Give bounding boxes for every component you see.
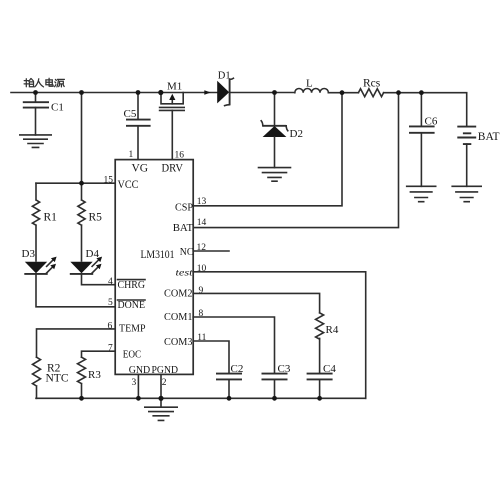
resistor R1 bbox=[32, 183, 57, 261]
wire pin1 VG from C5 bbox=[137, 126, 139, 160]
svg-text:C6: C6 bbox=[425, 116, 438, 128]
svg-text:R4: R4 bbox=[326, 324, 339, 336]
svg-text:6: 6 bbox=[108, 322, 113, 332]
svg-text:5: 5 bbox=[108, 298, 113, 308]
svg-text:VG: VG bbox=[132, 162, 149, 174]
svg-text:R3: R3 bbox=[88, 369, 101, 381]
capacitor C6 bbox=[409, 93, 438, 187]
svg-text:VCC: VCC bbox=[118, 177, 139, 191]
ground main PGND bbox=[145, 398, 177, 420]
svg-text:4: 4 bbox=[108, 277, 113, 287]
ground BAT bbox=[452, 186, 481, 201]
wire pin16 DRV gate stem bbox=[171, 110, 173, 159]
battery BAT bbox=[457, 127, 499, 187]
node junction dot VCC R5 bbox=[79, 181, 84, 186]
svg-text:EOC: EOC bbox=[123, 349, 142, 361]
svg-text:BAT: BAT bbox=[173, 222, 194, 234]
wire VCC horizontal pin15 bbox=[36, 182, 115, 184]
wire pin3 GND bbox=[137, 374, 139, 398]
svg-text:16: 16 bbox=[175, 151, 185, 161]
svg-text:R1: R1 bbox=[44, 212, 58, 224]
transistor M1 (P-MOSFET) bbox=[160, 81, 185, 111]
capacitor C3 bbox=[262, 363, 291, 398]
diode D2 (Schottky to ground) bbox=[261, 93, 303, 168]
wire bottom ground rail bbox=[36, 397, 366, 399]
svg-text:Rcs: Rcs bbox=[363, 78, 381, 90]
svg-text:C1: C1 bbox=[51, 102, 64, 114]
wire test pin10 to ground rail bbox=[193, 272, 366, 399]
wire COM3 pin11 to C2 bbox=[193, 341, 229, 373]
svg-text:COM1: COM1 bbox=[164, 311, 193, 323]
wire D4 to pin4 CHRG bbox=[82, 274, 116, 285]
resistor R2 NTC bbox=[33, 357, 69, 398]
svg-text:DRV: DRV bbox=[162, 162, 184, 174]
svg-text:14: 14 bbox=[197, 218, 207, 228]
wire COM2 pin9 to R4 bbox=[193, 293, 319, 312]
wire node1 to CSP pin13 bbox=[193, 93, 342, 206]
svg-text:15: 15 bbox=[104, 176, 114, 186]
resistor Rcs bbox=[358, 78, 383, 97]
wire pin7 EOC to R3 bbox=[82, 351, 116, 357]
svg-text:3: 3 bbox=[132, 378, 137, 388]
resistor R5 bbox=[78, 183, 102, 261]
svg-text:CHRG: CHRG bbox=[118, 279, 146, 291]
ground D2 bbox=[259, 168, 291, 182]
node junction dots bottom rail bbox=[79, 396, 322, 401]
ground C6 bbox=[407, 186, 436, 201]
wire COM1 pin8 to C3 bbox=[193, 317, 274, 373]
wire rail L to Rcs bbox=[328, 92, 358, 94]
svg-text:M1: M1 bbox=[167, 81, 182, 93]
arrow current marker on rail bbox=[204, 90, 211, 95]
wire NC stub pin12 bbox=[193, 250, 229, 252]
svg-text:NC: NC bbox=[180, 246, 194, 258]
wire VCC vertical bbox=[81, 93, 83, 184]
node 输入电源 input power label bbox=[24, 78, 64, 87]
svg-text:PGND: PGND bbox=[152, 364, 179, 376]
svg-text:C4: C4 bbox=[323, 363, 336, 375]
wire D3 to pin5 DONE bbox=[36, 274, 115, 307]
wire pin6 TEMP to R2 bbox=[37, 329, 116, 357]
LED D4 bbox=[70, 248, 102, 274]
svg-text:COM2: COM2 bbox=[164, 288, 193, 300]
svg-text:D1: D1 bbox=[218, 70, 231, 81]
capacitor C4 bbox=[307, 363, 337, 398]
svg-text:GND: GND bbox=[129, 364, 151, 376]
svg-text:R5: R5 bbox=[89, 212, 103, 224]
svg-text:LM3101: LM3101 bbox=[141, 249, 175, 261]
svg-text:test: test bbox=[176, 269, 193, 279]
svg-text:BAT: BAT bbox=[478, 131, 500, 143]
svg-text:CSP: CSP bbox=[175, 202, 193, 214]
capacitor C1 bbox=[23, 93, 64, 135]
svg-text:9: 9 bbox=[199, 286, 204, 296]
svg-text:C3: C3 bbox=[278, 363, 291, 375]
LED D3 bbox=[22, 248, 57, 274]
svg-text:C5: C5 bbox=[124, 108, 137, 120]
resistor R4 bbox=[316, 313, 339, 374]
wire rail Rcs to BAT corner bbox=[384, 93, 467, 127]
svg-text:L: L bbox=[306, 78, 313, 90]
svg-text:13: 13 bbox=[197, 197, 207, 207]
ground C1 bbox=[20, 135, 51, 148]
svg-text:COM3: COM3 bbox=[164, 336, 193, 348]
wire rail D1 to L bbox=[231, 92, 295, 94]
IC U1 LM3101 box bbox=[115, 160, 193, 375]
svg-text:NTC: NTC bbox=[46, 373, 69, 385]
node junction dots top rail bbox=[33, 90, 424, 95]
svg-text:D4: D4 bbox=[86, 248, 100, 260]
svg-text:7: 7 bbox=[108, 344, 113, 354]
svg-text:DONE: DONE bbox=[118, 299, 146, 311]
svg-text:D2: D2 bbox=[290, 128, 303, 140]
wire pin2 PGND bbox=[160, 374, 162, 398]
resistor R3 bbox=[78, 357, 102, 398]
svg-text:D3: D3 bbox=[22, 248, 36, 260]
wire node2 to BAT pin14 bbox=[193, 93, 398, 228]
inductor L bbox=[295, 78, 329, 93]
capacitor C2 bbox=[216, 363, 243, 398]
capacitor C5 bbox=[124, 93, 151, 126]
diode D1 (Schottky) bbox=[217, 70, 233, 105]
svg-text:1: 1 bbox=[129, 150, 134, 160]
wire top rail VIN segment bbox=[11, 92, 218, 94]
svg-text:TEMP: TEMP bbox=[119, 323, 146, 335]
svg-text:2: 2 bbox=[162, 378, 167, 388]
svg-text:C2: C2 bbox=[231, 363, 244, 375]
